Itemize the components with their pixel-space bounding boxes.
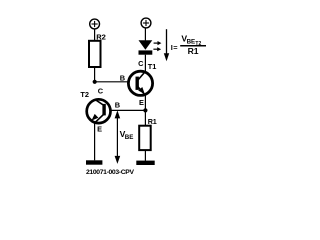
svg-text:=: =	[173, 43, 178, 52]
svg-text:E: E	[97, 125, 102, 134]
voltage arrow V_BE (double-headed)	[115, 110, 121, 163]
transistor T2	[87, 99, 111, 123]
wire node B to R1	[144, 110, 146, 125]
svg-text:T2: T2	[80, 90, 89, 99]
svg-text:R2: R2	[96, 32, 106, 41]
wire node B to T2 base	[105, 109, 146, 111]
wire R2 to node A	[94, 67, 96, 82]
current arrow I	[164, 29, 169, 61]
node A (junction dot)	[93, 80, 97, 84]
svg-text:T1: T1	[148, 62, 157, 71]
ground left	[86, 160, 102, 164]
svg-text:210071-003-CPV: 210071-003-CPV	[86, 169, 134, 176]
svg-text:C: C	[98, 87, 104, 96]
wire LED cathode to T1 collector	[144, 55, 146, 72]
wire supply-left to R2	[94, 30, 96, 41]
supply V+ left	[90, 19, 100, 29]
wire node A to T1 base	[95, 81, 137, 83]
node B (junction dot)	[143, 108, 147, 112]
resistor R2	[89, 32, 106, 67]
supply V+ right	[141, 18, 151, 28]
ground right	[136, 161, 154, 165]
wire R1 to ground	[144, 150, 146, 161]
svg-text:BE: BE	[187, 39, 196, 46]
wire supply-right to LED	[144, 29, 146, 41]
svg-text:R1: R1	[148, 117, 157, 126]
transistor T1	[128, 71, 152, 95]
wire T1 emitter to node B	[144, 95, 146, 111]
label V_BE	[120, 129, 134, 141]
wire T2 emitter to ground	[94, 123, 96, 161]
svg-text:BE: BE	[125, 134, 134, 141]
svg-text:R1: R1	[188, 46, 199, 56]
LED D1	[139, 40, 162, 54]
formula I = V_BE(T2) / R1	[171, 34, 206, 56]
svg-text:E: E	[139, 98, 144, 107]
svg-text:C: C	[138, 59, 144, 68]
svg-text:B: B	[115, 101, 120, 110]
resistor R1	[139, 117, 157, 150]
svg-text:B: B	[120, 74, 125, 83]
